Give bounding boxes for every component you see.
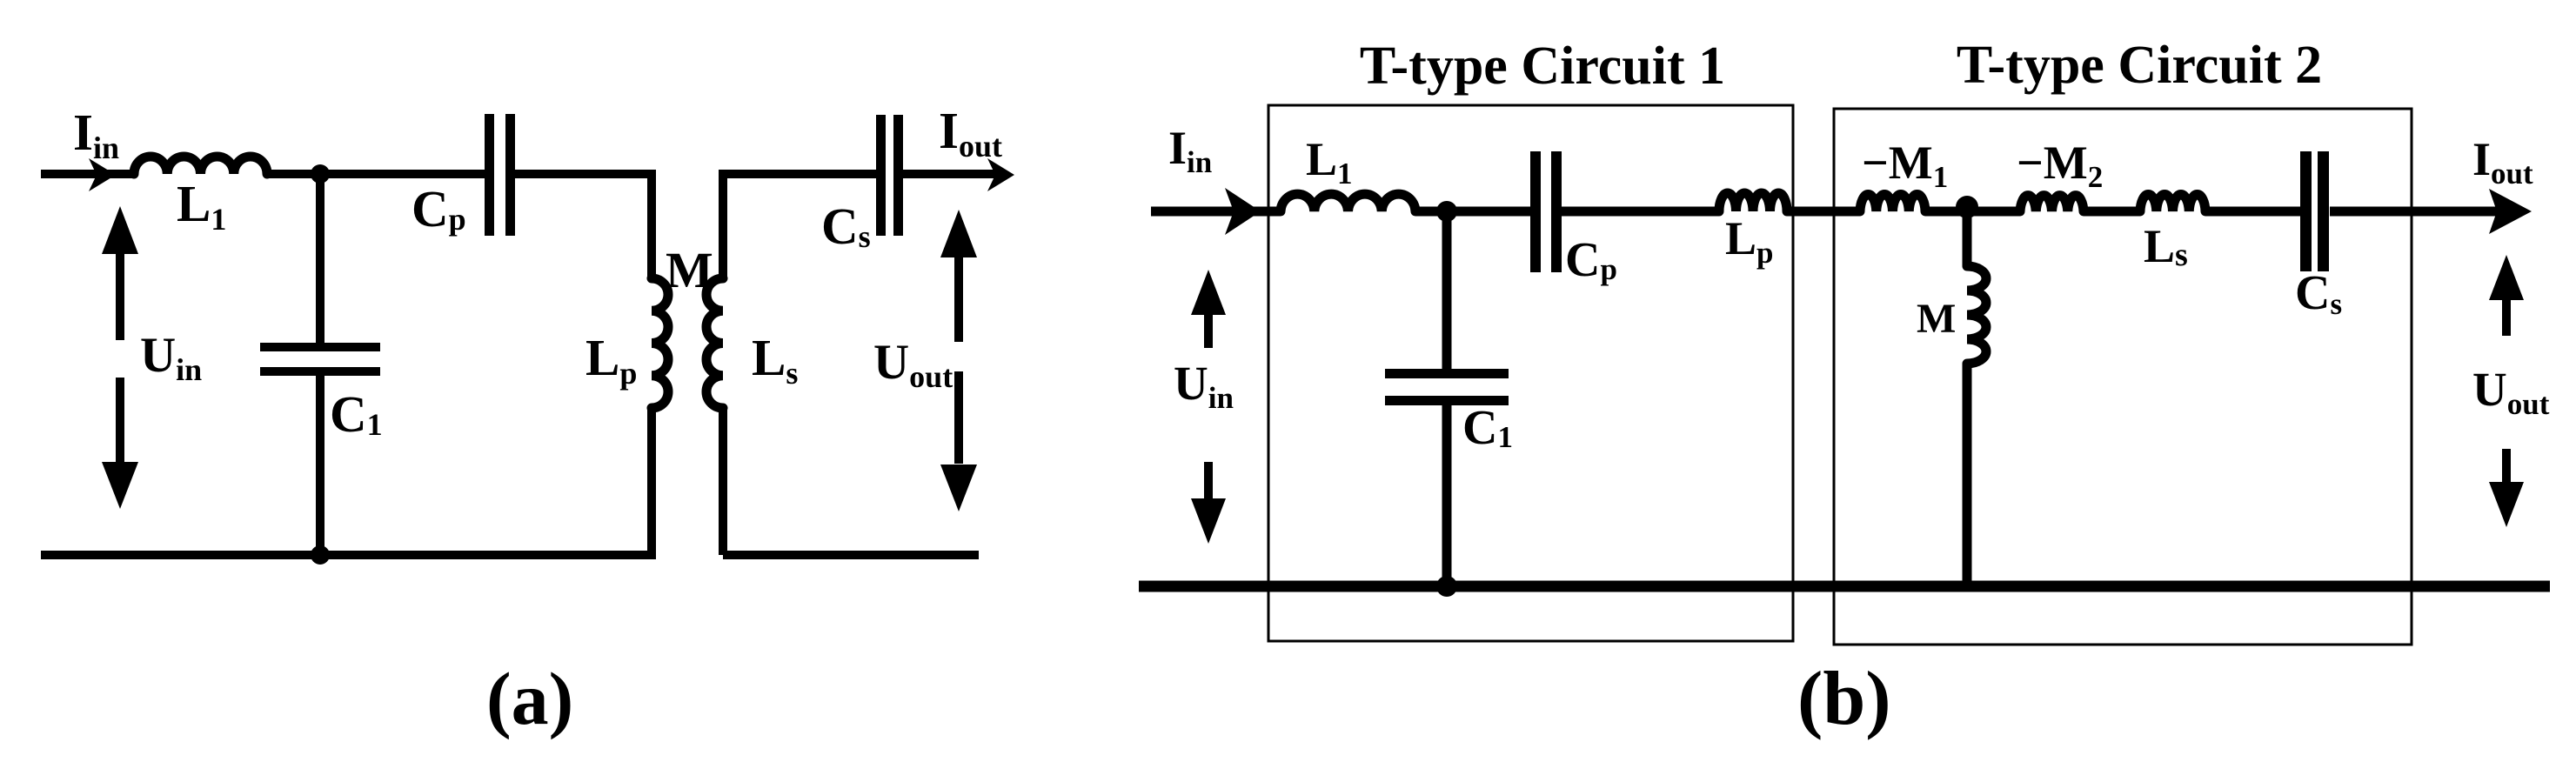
wire: (a) C1 branch upper xyxy=(316,174,325,343)
wire: (b) M branch upper xyxy=(1963,211,1972,266)
wire: (a) Cs to output xyxy=(902,170,1000,178)
node: (b) bottom junction of C1 xyxy=(1436,576,1457,597)
wire: (a) bottom left rail xyxy=(41,551,656,559)
arrow: I_in (b) arrowhead xyxy=(1225,188,1261,235)
node: (b) top junction of C1 xyxy=(1436,201,1457,222)
arrow: I_out (b) arrowhead xyxy=(2489,189,2532,234)
wire: (b) -M2 to Ls xyxy=(2084,207,2140,217)
inductor Ls (b) coil xyxy=(2140,195,2205,211)
svg-text:T-type Circuit 2: T-type Circuit 2 xyxy=(1957,36,2322,95)
arrow: U_in (a) double arrow xyxy=(102,206,138,254)
inductor -M1 (b) coil xyxy=(1860,195,1925,211)
wire: (b) Cs to output xyxy=(2330,207,2519,217)
capacitor Cp (b) plates xyxy=(1530,151,1541,272)
inductor M (b) shunt coil xyxy=(1967,266,1986,364)
arrow: U_out (a) double arrow xyxy=(940,210,977,257)
box: T-type Circuit 1 outline xyxy=(1268,105,1793,641)
wire: (b) Lp to -M1 xyxy=(1787,207,1860,217)
inductor Lp (b) coil xyxy=(1719,193,1787,211)
node: (a) top junction of C1 xyxy=(311,164,330,184)
svg-text:M: M xyxy=(1917,296,1956,342)
wire: (a) Ls bottom lead xyxy=(719,408,727,555)
arrow: U_out (b) up arrow xyxy=(2489,255,2524,300)
wire: (b) M branch lower xyxy=(1963,364,1972,586)
wire: (b) C1 branch upper xyxy=(1442,211,1452,369)
wire: (b) Ls to Cs xyxy=(2205,207,2300,217)
inductor L1 (b) coil xyxy=(1281,194,1415,211)
wire: (a) C1 branch lower xyxy=(316,375,325,555)
wire: (b) Cp to Lp xyxy=(1562,207,1719,217)
wire: (b) C1 branch lower xyxy=(1442,405,1452,586)
node: (b) junction of M branch xyxy=(1956,196,1978,218)
wire: (b) bottom rail xyxy=(1139,581,2550,592)
svg-text:M: M xyxy=(666,242,713,298)
wire: (a) Cp to Lp corner down xyxy=(515,174,652,278)
wire: (a) bottom right rail xyxy=(723,551,979,559)
inductor -M2 (b) coil xyxy=(2020,196,2084,211)
inductor Ls (a) transformer secondary coil xyxy=(706,278,723,408)
box: T-type Circuit 2 outline xyxy=(1834,109,2412,645)
svg-text:(b): (b) xyxy=(1797,657,1891,741)
svg-text:T-type Circuit 1: T-type Circuit 1 xyxy=(1360,37,1725,96)
capacitor Cs (b) plates xyxy=(2300,151,2312,271)
arrow: I_in (a) arrowhead xyxy=(89,158,116,191)
svg-text:(a): (a) xyxy=(486,657,573,740)
wire: (b) input lead xyxy=(1151,207,1281,217)
arrow: I_out (a) arrowhead xyxy=(987,158,1014,191)
capacitor C1 (b) plates xyxy=(1385,369,1509,378)
capacitor Cs (a) plates xyxy=(876,115,886,236)
wire: (a) input lead xyxy=(41,170,134,178)
inductor L1 (a) coil xyxy=(134,157,267,174)
capacitor Cp (a) plates xyxy=(485,114,494,236)
capacitor C1 (a) plates xyxy=(260,343,380,351)
wire: (b) L1 to Cp xyxy=(1415,207,1530,217)
wire: (b) -M1 to -M2 xyxy=(1925,207,2020,217)
wire: (a) Lp bottom lead xyxy=(647,408,656,555)
arrow: U_in (b) up arrow xyxy=(1191,270,1226,315)
inductor Lp (a) transformer primary coil xyxy=(652,278,668,408)
arrow: U_out (b) down arrow xyxy=(2502,449,2511,487)
wire: (a) Ls top corner to Cs xyxy=(723,174,876,278)
node: (a) bottom junction of C1 xyxy=(311,545,330,565)
arrow: U_in (b) down arrow xyxy=(1204,462,1213,501)
wire: (a) L1 to Cp top wire xyxy=(267,170,485,178)
